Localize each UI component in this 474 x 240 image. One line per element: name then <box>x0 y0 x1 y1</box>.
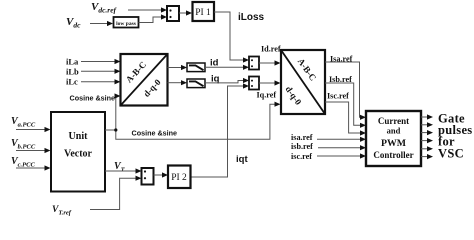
svg-text:and: and <box>387 126 401 136</box>
label iqt <box>236 154 248 165</box>
label Cosine &sine upper <box>70 94 116 103</box>
svg-text:isc.ref: isc.ref <box>291 152 312 161</box>
current and PWM controller block <box>366 111 421 166</box>
svg-text:PWM: PWM <box>381 138 406 149</box>
svg-text:PI 2: PI 2 <box>171 173 187 183</box>
svg-text:iLb: iLb <box>66 67 79 77</box>
low pass filter F2 (iq) <box>187 79 205 88</box>
low pass filter F1 (id) <box>187 63 205 72</box>
wire PI1 iLoss to summer S1 <box>214 12 249 63</box>
svg-text:Vdc: Vdc <box>66 16 81 30</box>
label Cosine &sine lower <box>132 129 178 138</box>
wire isc.ref to controller <box>317 153 366 158</box>
label VT <box>114 161 126 174</box>
svg-text:Controller: Controller <box>373 150 413 160</box>
wire id to summer S1 <box>205 65 249 70</box>
svg-text:Cosine &sine: Cosine &sine <box>70 94 116 103</box>
label iLoss <box>238 12 265 23</box>
label Vdc <box>66 16 81 30</box>
wire low pass to summer S0 <box>139 14 168 22</box>
svg-text:PI 1: PI 1 <box>195 8 211 18</box>
summer S3 <box>142 168 154 185</box>
svg-text:Cosine &sine: Cosine &sine <box>132 129 178 138</box>
wire S0 to PI1 <box>179 10 192 15</box>
label Va.PCC <box>11 116 36 129</box>
wire Vb.PCC <box>16 148 51 153</box>
svg-text:isb.ref: isb.ref <box>291 142 313 151</box>
label Isb.ref <box>329 75 352 84</box>
wire iq to summer S2 <box>205 78 249 83</box>
wire T1 iq output to filter F2 <box>168 80 188 85</box>
svg-text:VSC: VSC <box>438 147 464 161</box>
svg-text:Id.ref: Id.ref <box>261 45 281 54</box>
wire iLc <box>81 79 121 84</box>
wire isa.ref to controller <box>317 137 366 142</box>
svg-text:Vb.PCC: Vb.PCC <box>11 138 36 151</box>
svg-text:Iq.ref: Iq.ref <box>257 91 277 100</box>
summer S1 <box>249 57 259 70</box>
wire cosine&sine net with junction <box>105 93 281 139</box>
wire Vdc.ref to summer S0 <box>128 7 167 12</box>
label Vb.PCC <box>11 138 36 151</box>
svg-text:VT.ref: VT.ref <box>52 205 72 217</box>
wire T1 id output to filter F1 <box>168 65 188 70</box>
summer S2 <box>249 77 259 90</box>
svg-text:VT: VT <box>114 161 126 174</box>
label iLb <box>66 67 79 77</box>
label iLc <box>66 77 78 87</box>
wire VT to summer S3 <box>105 168 142 173</box>
label Isa.ref <box>330 55 353 64</box>
PI controller PI2 <box>168 166 191 189</box>
label Id.ref <box>261 45 281 54</box>
transform block T1 A-B-C to d-q-0 <box>121 54 168 106</box>
svg-text:Current: Current <box>378 116 409 126</box>
wire isb.ref to controller <box>318 145 366 150</box>
wire S2 to T2 <box>259 80 281 85</box>
wire Isb to controller <box>325 83 366 128</box>
wire VT.ref to summer S3 <box>90 176 142 210</box>
wire PI2 iqt to summer S2 <box>191 83 250 177</box>
gate pulse output arrows <box>421 114 433 159</box>
low pass filter block <box>114 17 139 28</box>
svg-text:Va.PCC: Va.PCC <box>11 116 36 129</box>
wire iLa <box>81 59 121 64</box>
wire Va.PCC <box>16 127 51 132</box>
wire iLb <box>81 69 121 74</box>
unit vector block <box>51 112 105 192</box>
svg-text:iLa: iLa <box>66 57 79 67</box>
PI controller PI1 <box>193 2 215 21</box>
wire Isa to controller <box>325 62 366 120</box>
label Isc.ref <box>327 92 349 101</box>
label isa.ref <box>291 133 313 142</box>
label id <box>210 58 219 69</box>
label VT.ref <box>52 205 72 217</box>
svg-text:iLc: iLc <box>66 77 78 87</box>
wire Vc.PCC <box>16 165 51 170</box>
label Vdc.ref <box>91 1 118 15</box>
label isc.ref <box>291 152 312 161</box>
wire S3 to PI2 <box>154 172 169 177</box>
summer S0 <box>167 6 179 21</box>
label Vc.PCC <box>11 156 35 169</box>
svg-text:iqt: iqt <box>236 154 248 165</box>
svg-text:Isc.ref: Isc.ref <box>327 92 349 101</box>
label iLa <box>66 57 79 67</box>
label iq <box>211 74 220 85</box>
svg-text:Unit: Unit <box>69 131 89 142</box>
wire Isc to controller <box>325 102 366 136</box>
svg-text:Vector: Vector <box>64 149 93 160</box>
svg-text:Vdc.ref: Vdc.ref <box>91 1 118 15</box>
label Iq.ref <box>257 91 277 100</box>
svg-text:isa.ref: isa.ref <box>291 133 313 142</box>
label Gate pulses for VSC <box>438 112 472 161</box>
wire Vdc to low pass <box>90 21 113 26</box>
label isb.ref <box>291 142 313 151</box>
svg-text:Vc.PCC: Vc.PCC <box>11 156 35 169</box>
transform block T2 d-q-0 to A-B-C <box>281 50 325 114</box>
wire S1 to T2 <box>259 60 281 65</box>
svg-text:low pass: low pass <box>116 21 136 27</box>
svg-text:iLoss: iLoss <box>238 12 265 23</box>
